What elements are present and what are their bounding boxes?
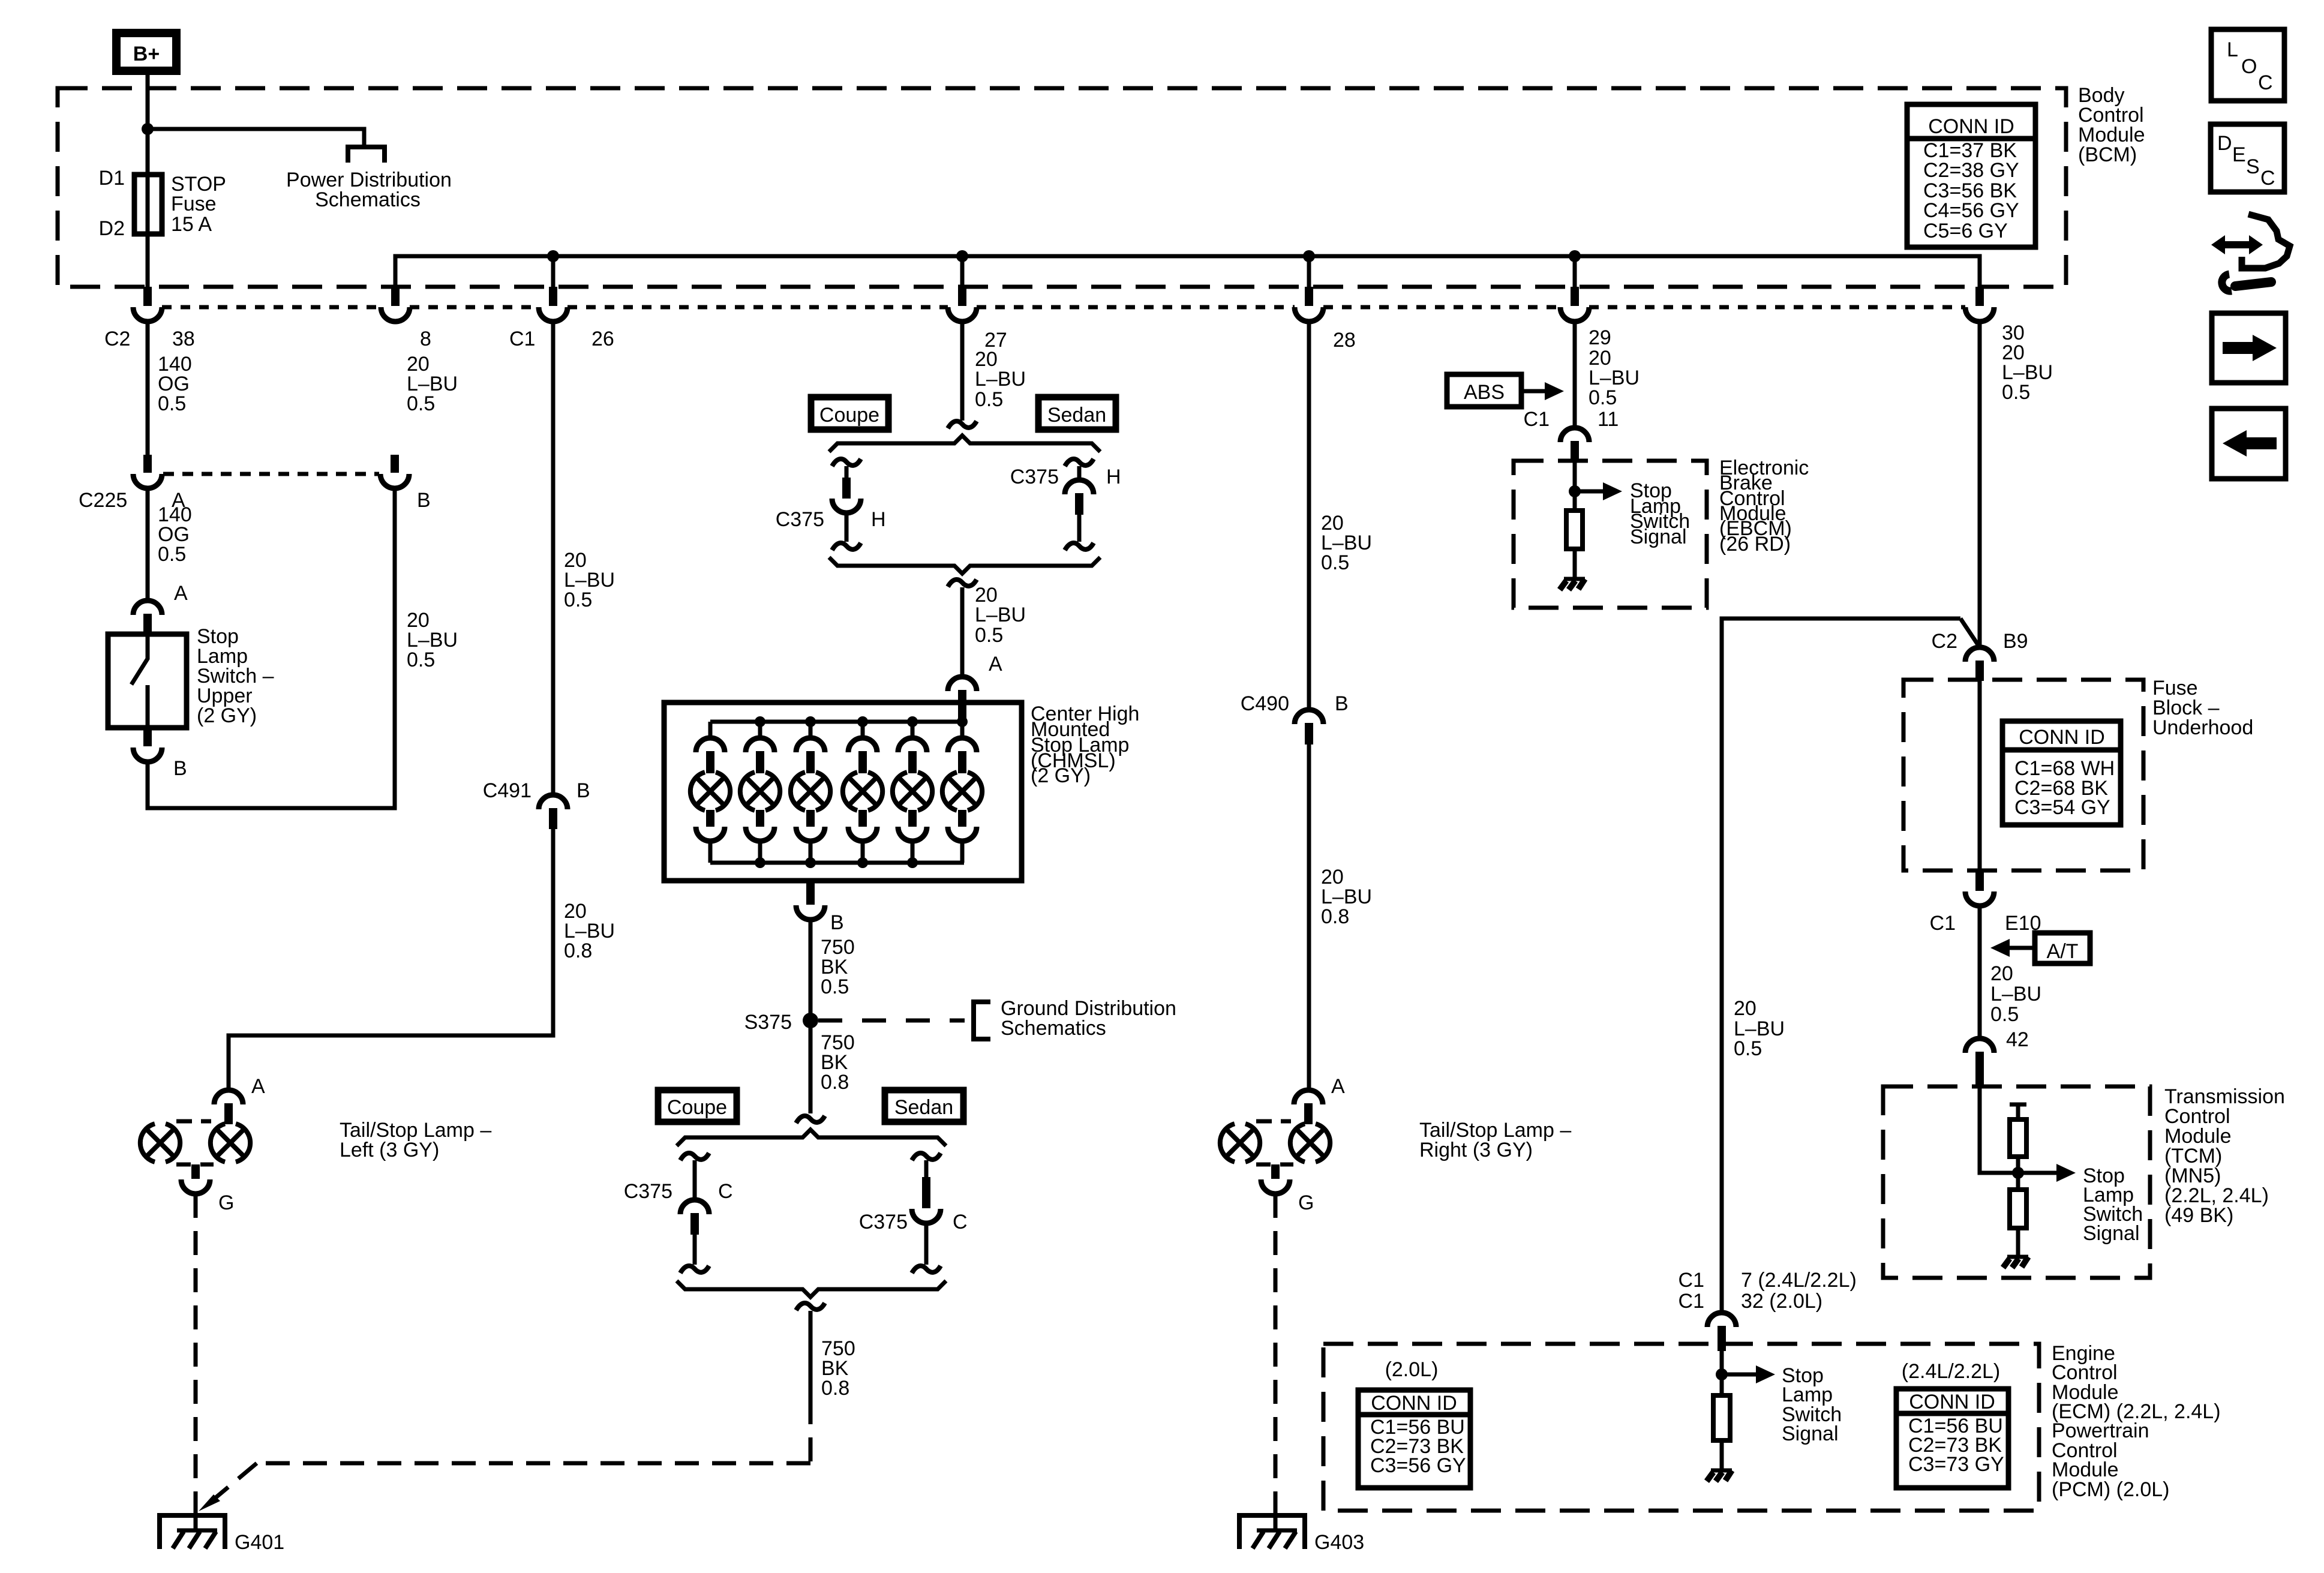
svg-text:(2.4L/2.2L): (2.4L/2.2L) [1902,1360,2000,1383]
svg-text:Coupe: Coupe [819,404,879,427]
tail/stop lamp - right assembly [1220,1121,1330,1194]
A/T arrow [1990,939,2010,957]
svg-text:CONN ID: CONN ID [2019,726,2105,749]
svg-text:Sedan: Sedan [894,1096,953,1119]
svg-text:Signal: Signal [1782,1422,1839,1445]
svg-text:B: B [173,757,187,780]
sedan branch connector C375 C [912,1153,941,1160]
svg-text:CONN ID: CONN ID [1371,1392,1457,1415]
wire through fuse block [1978,681,1982,871]
svg-text:A: A [174,582,188,605]
svg-text:Signal: Signal [1630,526,1687,548]
svg-text:S: S [2246,155,2260,178]
wire 20 L-BU to CHMSL [960,587,965,677]
option merge brace [829,557,1100,574]
svg-text:C1: C1 [509,328,535,350]
svg-text:B: B [577,779,590,802]
wire 20 L-BU from pin 30 [1978,322,1982,648]
ground wire to G401 [194,1194,198,1514]
svg-text:CONN ID: CONN ID [1928,115,2014,138]
svg-text:C4=56 GY: C4=56 GY [1923,199,2019,222]
wire 750 BK 0.8 to ground run [809,1311,813,1400]
wire to power distribution bracket [148,129,364,146]
svg-text:C: C [2258,71,2273,94]
EBCM internal stop lamp signal [1573,461,1577,511]
center high mounted stop lamp (CHMSL) box [664,703,1022,881]
svg-text:0.5: 0.5 [158,392,186,415]
connector C225 terminal B [391,455,399,473]
svg-text:20: 20 [1990,962,2013,985]
svg-text:0.5: 0.5 [1734,1037,1762,1060]
svg-text:Schematics: Schematics [315,188,421,211]
connector C491 terminal B [539,795,568,809]
svg-text:7 (2.4L/2.2L): 7 (2.4L/2.2L) [1741,1269,1857,1292]
svg-text:Underhood: Underhood [2152,716,2253,739]
svg-text:11: 11 [1598,408,1619,431]
wire 140 OG C225 to switch [146,488,150,601]
svg-text:0.5: 0.5 [407,392,435,415]
switch blade contacts [131,634,148,685]
svg-text:O: O [2241,55,2257,78]
svg-text:L–BU: L–BU [975,604,1026,626]
svg-text:(49 BK): (49 BK) [2164,1204,2233,1227]
tail/stop lamp - left assembly [140,1121,250,1194]
svg-text:Right (3 GY): Right (3 GY) [1419,1139,1533,1161]
connector C490 terminal B [1295,710,1323,724]
splice S375 [803,1013,818,1028]
ABS reference box [1447,374,1521,407]
sedan branch connector C375 H [1065,459,1094,466]
svg-text:Schematics: Schematics [1001,1017,1106,1040]
svg-text:G401: G401 [235,1531,284,1554]
BCM internal bus [395,256,1980,287]
pin 28 connector [1305,287,1313,306]
svg-text:C1: C1 [1524,408,1550,431]
svg-text:C1: C1 [1930,912,1956,935]
svg-text:G403: G403 [1314,1531,1364,1554]
TCM internal stop lamp signal [1980,1088,2018,1173]
wire 140 OG from pin 38 [146,322,150,456]
option label Sedan (lower) [885,1090,963,1122]
option label Coupe (lower) [658,1090,737,1122]
svg-text:L–BU: L–BU [975,368,1026,391]
svg-text:42: 42 [2006,1028,2029,1051]
svg-text:C375: C375 [859,1211,908,1233]
svg-text:28: 28 [1333,329,1356,352]
svg-text:0.8: 0.8 [821,1377,849,1400]
svg-text:B9: B9 [2003,630,2028,653]
lower option merge brace [677,1281,946,1297]
svg-text:(PCM) (2.0L): (PCM) (2.0L) [2052,1478,2169,1501]
svg-text:26: 26 [591,328,614,350]
svg-text:C490: C490 [1241,692,1289,715]
option label Coupe [811,397,888,430]
pin 27 connector [958,287,966,306]
svg-text:D1: D1 [99,167,125,190]
A/T option box [2035,933,2090,963]
svg-text:0.5: 0.5 [564,589,592,611]
svg-text:G: G [1298,1191,1314,1214]
dashed ground run to G401 [209,1400,810,1503]
svg-text:C375: C375 [776,508,824,531]
svg-text:0.5: 0.5 [407,649,435,671]
svg-text:38: 38 [172,328,195,350]
svg-text:A: A [251,1075,265,1098]
coupe branch connector C375 H [832,459,861,466]
CHMSL bus junctions [755,716,765,727]
fuse F1 STOP 15A [134,175,162,234]
svg-text:A/T: A/T [2047,940,2079,963]
svg-text:C2=38 GY: C2=38 GY [1923,159,2019,182]
option split brace [829,436,1100,452]
CHMSL terminal B [806,881,815,905]
svg-text:D: D [2217,132,2232,155]
junction bus x29 [1569,250,1581,262]
prev-page arrow box [2212,409,2286,479]
svg-text:(2 GY): (2 GY) [197,704,257,727]
svg-text:S375: S375 [744,1011,792,1034]
svg-text:CONN ID: CONN ID [1909,1391,1995,1413]
service icon double arrow [2222,241,2252,248]
pin 30 connector [1975,287,1984,306]
svg-text:C2: C2 [1932,630,1957,653]
svg-text:C1: C1 [1679,1290,1704,1313]
svg-text:C491: C491 [483,779,532,802]
svg-text:C2: C2 [104,328,130,350]
svg-text:8: 8 [420,328,431,350]
wire switch B loop to C225 B [148,488,395,808]
svg-text:G: G [218,1191,234,1214]
ECM internal stop lamp signal [1720,1350,1724,1395]
svg-text:C: C [718,1180,733,1203]
wire 20 L-BU from pin 26 [551,322,556,795]
svg-text:C3=73 GY: C3=73 GY [1908,1453,2004,1476]
svg-text:B: B [1335,692,1349,715]
svg-text:0.8: 0.8 [1321,905,1349,928]
branch to ECM/PCM stop lamp signal [1722,619,1980,1313]
junction node on B+ feed [142,123,154,135]
svg-text:29: 29 [1589,326,1611,349]
svg-text:0.5: 0.5 [1990,1003,2019,1026]
lower option split brace [677,1130,946,1146]
svg-text:(BCM): (BCM) [2078,143,2137,166]
transmission control module dashed outline [1883,1086,2150,1278]
wire 20 L-BU from pin 29 [1573,322,1577,428]
TCM internal ground [2003,1257,2028,1268]
svg-text:C3=56 GY: C3=56 GY [1370,1454,1466,1477]
svg-text:0.5: 0.5 [158,543,186,566]
service icon wrench [2235,282,2271,286]
junction bus x28 [1303,250,1315,262]
dashed reference to ground distribution [818,1019,965,1023]
CHMSL internal top bus [710,720,964,724]
stop lamp switch - upper box [108,634,187,728]
svg-text:Fuse: Fuse [171,193,217,215]
svg-text:C5=6 GY: C5=6 GY [1923,220,2008,242]
svg-text:C225: C225 [79,489,127,512]
lamp ground pin G [191,1164,200,1179]
LOC legend box [2211,29,2284,101]
BCM connector row dotted line [162,305,1965,310]
wire 20 L-BU 0.8 to left tail lamp [229,828,553,1091]
svg-text:15 A: 15 A [171,213,212,236]
svg-text:C: C [953,1211,968,1233]
fuse block terminal C1/E10 [1975,870,1984,891]
DESC legend box [2211,124,2284,192]
svg-text:ABS: ABS [1464,381,1505,404]
EBCM dashed outline [1514,461,1707,608]
service icon hand with wrench [2242,214,2290,268]
svg-text:H: H [871,508,886,531]
svg-text:Signal: Signal [2083,1222,2140,1245]
wire 750 BK 0.8 [809,1020,813,1113]
ground wire to G403 [1274,1194,1278,1514]
junction bus x27 [956,250,968,262]
wire 20 L-BU to TCM [1978,906,1982,1039]
svg-text:0.5: 0.5 [975,624,1003,647]
wire 20 L-BU 0.8 to right tail lamp [1307,745,1311,1091]
svg-text:20: 20 [1734,997,1756,1020]
svg-text:0.8: 0.8 [564,939,592,962]
svg-text:A: A [1331,1075,1345,1098]
svg-text:B: B [830,911,844,934]
engine control module dashed outline [1323,1344,2039,1511]
wire B+ to fuse [146,71,150,288]
connector C225 terminal A [143,455,152,473]
svg-text:C375: C375 [624,1180,672,1203]
ECM internal ground [1707,1470,1732,1481]
svg-text:D2: D2 [99,217,125,240]
wire 750 BK 0.5 [809,920,813,1020]
coupe branch connector C375 C [680,1153,709,1160]
svg-text:0.5: 0.5 [1589,386,1617,409]
fuse block CONN ID table [2002,721,2121,825]
power distribution reference bracket [348,147,385,163]
svg-text:H: H [1106,466,1121,488]
svg-text:(26 RD): (26 RD) [1719,533,1791,556]
svg-text:0.5: 0.5 [821,975,849,998]
ground G403 [1239,1506,1305,1549]
svg-text:L: L [2227,38,2238,61]
svg-text:L–BU: L–BU [1990,983,2041,1005]
junction bus x26 [547,250,559,262]
wire break at option split [948,421,977,428]
svg-text:(2 GY): (2 GY) [1031,764,1091,787]
Body Control Module (BCM) dashed outline [58,88,2066,287]
arrowhead at G401 [199,1494,220,1511]
pin 29 connector [1571,287,1579,306]
svg-text:0.5: 0.5 [975,388,1003,411]
svg-text:0.5: 0.5 [1321,551,1349,574]
wire 20 L-BU from pin 28 [1307,322,1311,710]
option label Sedan [1038,397,1116,430]
wire 20 L-BU from pin 27 [960,322,965,421]
svg-text:(2.0L): (2.0L) [1385,1358,1439,1381]
ground G401 [160,1506,225,1549]
CHMSL bulbs 1-6 [690,722,730,863]
switch terminal B [143,728,152,746]
fuse block - underhood dashed outline [1903,680,2143,870]
svg-text:0.5: 0.5 [2002,381,2030,404]
pin 26 connector C1 [549,287,557,306]
svg-text:Coupe: Coupe [667,1096,727,1119]
svg-text:32 (2.0L): 32 (2.0L) [1741,1290,1822,1313]
svg-text:E: E [2232,143,2246,166]
svg-text:C375: C375 [1010,466,1059,488]
svg-text:Sedan: Sedan [1047,404,1106,427]
svg-text:A: A [989,653,1002,676]
svg-text:Left (3 GY): Left (3 GY) [340,1139,439,1161]
next-page arrow box [2212,313,2286,383]
svg-text:C: C [2260,167,2275,190]
CHMSL internal bottom bus [710,861,964,865]
CHMSL terminal A [948,677,977,691]
svg-text:C1: C1 [1679,1269,1704,1292]
EBCM pull resistor [1566,511,1583,549]
connector C225 dashed tie line [163,472,379,476]
svg-text:0.8: 0.8 [821,1071,849,1094]
B+ battery feed box [116,33,176,71]
BCM CONN ID table [1907,104,2035,247]
ABS arrow [1521,389,1546,394]
bus drop wires [553,256,1575,287]
pin 8 connector [391,287,400,306]
svg-text:B: B [417,489,431,512]
EBCM internal ground [1560,579,1585,590]
pin 38 connector C2 [143,287,152,306]
svg-text:C3=54 GY: C3=54 GY [2014,796,2110,819]
svg-text:B+: B+ [133,43,160,65]
